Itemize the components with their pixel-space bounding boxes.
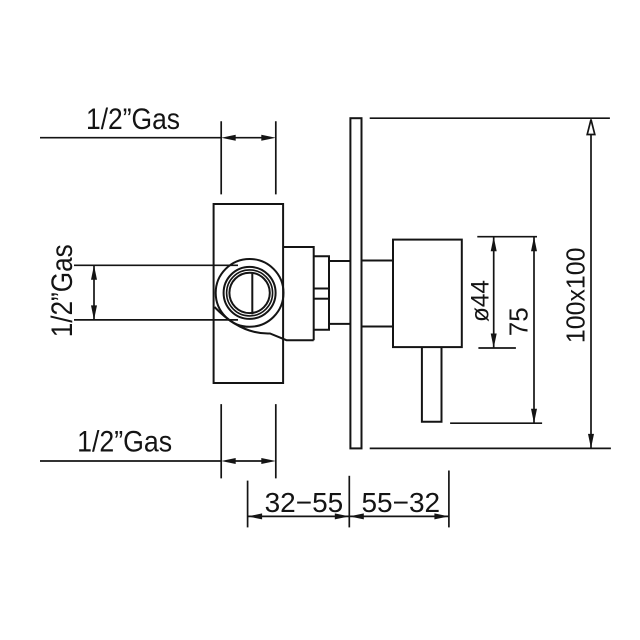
svg-text:32−55: 32−55 xyxy=(265,487,344,518)
svg-text:100x100: 100x100 xyxy=(560,247,590,343)
svg-text:75: 75 xyxy=(504,307,534,336)
svg-text:55−32: 55−32 xyxy=(361,487,440,518)
svg-text:1/2”Gas: 1/2”Gas xyxy=(86,103,180,136)
svg-text:1/2”Gas: 1/2”Gas xyxy=(46,244,79,337)
svg-text:1/2”Gas: 1/2”Gas xyxy=(77,426,172,459)
svg-text:ø44: ø44 xyxy=(467,280,495,322)
